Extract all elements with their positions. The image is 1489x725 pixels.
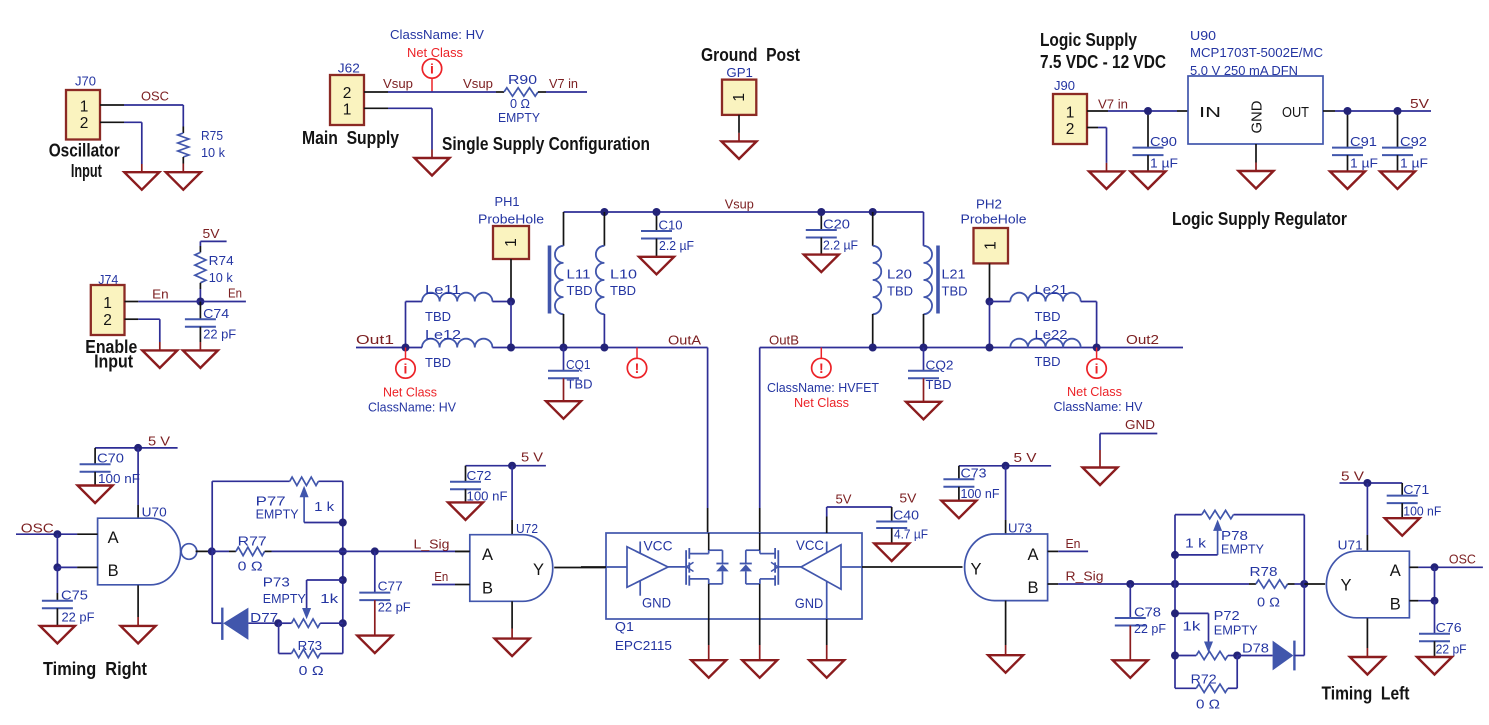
- ground at C71: [1385, 518, 1420, 536]
- core bar right: [936, 246, 940, 314]
- svg-text:22 pF: 22 pF: [203, 327, 236, 342]
- ground at Q1 left FET source: [708, 619, 710, 645]
- capacitor C73: [958, 466, 960, 480]
- wire OutB rail: [760, 347, 1097, 349]
- svg-text:OSC: OSC: [141, 89, 169, 104]
- svg-text:B: B: [482, 579, 493, 597]
- svg-text:En: En: [434, 569, 448, 584]
- svg-text:J90: J90: [1054, 78, 1075, 93]
- junction C78: [1126, 580, 1134, 588]
- Q1 left FET gate arrow: [687, 562, 694, 567]
- wire En stub at U73: [1058, 550, 1088, 552]
- svg-text:5 V: 5 V: [148, 434, 170, 449]
- svg-text:0 Ω: 0 Ω: [1257, 595, 1280, 610]
- svg-text:Input: Input: [71, 161, 102, 181]
- svg-text:Le12: Le12: [425, 327, 461, 342]
- ground at C76: [1417, 657, 1452, 675]
- capacitor CQ2: [923, 348, 925, 371]
- wire V7 in: [546, 91, 587, 93]
- svg-text:ProbeHole: ProbeHole: [478, 212, 544, 227]
- wire feedback left vertical: [211, 481, 213, 623]
- svg-text:TBD: TBD: [1035, 354, 1061, 369]
- svg-text:5V: 5V: [1410, 96, 1429, 111]
- wire J74.2 to ground: [138, 318, 160, 320]
- svg-text:R73: R73: [298, 638, 323, 653]
- svg-text:2: 2: [1066, 121, 1075, 138]
- ground at C73: [941, 501, 976, 519]
- wire 5V from U90 OUT: [1323, 110, 1335, 112]
- svg-text:C73: C73: [961, 466, 987, 481]
- junction Out2-Le21: [1093, 344, 1101, 352]
- ground at C91: [1330, 171, 1365, 189]
- wire to C75: [56, 567, 58, 593]
- svg-text:L10: L10: [610, 267, 637, 282]
- svg-text:1: 1: [1066, 105, 1075, 122]
- junction at C90: [1144, 107, 1152, 115]
- svg-text:0 Ω: 0 Ω: [510, 96, 530, 111]
- svg-text:A: A: [1028, 546, 1039, 564]
- potentiometer P73 element: [278, 622, 291, 624]
- svg-text:0 Ω: 0 Ω: [238, 559, 263, 574]
- junction Le12-PH1 branch: [507, 344, 515, 352]
- junction 5V-U70: [134, 444, 142, 452]
- junction P72-D78: [1233, 652, 1241, 660]
- wire J90.2 to ground: [1098, 127, 1107, 129]
- node En junction: [196, 298, 204, 306]
- Q1 right GND pin: [826, 581, 828, 619]
- capacitor C90: [1147, 115, 1149, 148]
- ground at C78: [1129, 626, 1131, 661]
- potentiometer P77: [290, 477, 319, 485]
- svg-text:C75: C75: [61, 588, 88, 603]
- Q1 input wire: [606, 566, 627, 568]
- Q1 right buffer: [801, 545, 841, 589]
- svg-text:R74: R74: [209, 253, 234, 268]
- potentiometer P73 wiper: [307, 579, 343, 581]
- svg-text:Q1: Q1: [615, 619, 634, 634]
- svg-text:En: En: [1066, 536, 1081, 551]
- svg-text:L_Sig: L_Sig: [414, 537, 450, 552]
- ground at J90.2: [1089, 171, 1124, 189]
- Q1 right FET drain lead: [760, 553, 775, 555]
- potentiometer P72 wiper: [1175, 612, 1209, 614]
- wire Vsup rail: [564, 211, 924, 213]
- svg-text:2: 2: [343, 85, 352, 102]
- svg-text:!: !: [635, 360, 640, 376]
- wire OutB down to Q1: [759, 348, 761, 509]
- capacitor C76: [1434, 601, 1436, 634]
- svg-text:Logic Supply: Logic Supply: [1040, 30, 1137, 50]
- resistor R75: [182, 127, 184, 134]
- diode D78: [1237, 655, 1272, 657]
- U70 VCC wire: [137, 448, 139, 505]
- U90 GND to ground: [1255, 144, 1257, 163]
- svg-text:TBD: TBD: [942, 284, 968, 299]
- wire Le21 right down to Out2: [1096, 302, 1098, 348]
- svg-text:V7 in: V7 in: [1098, 97, 1128, 112]
- diode D77: [212, 622, 222, 624]
- svg-text:En: En: [152, 287, 169, 302]
- svg-text:1 µF: 1 µF: [1400, 156, 1428, 171]
- svg-text:P73: P73: [263, 575, 290, 590]
- ground at C40: [874, 544, 909, 562]
- svg-text:TBD: TBD: [567, 377, 593, 392]
- svg-text:OUT: OUT: [1282, 104, 1309, 121]
- svg-text:1: 1: [503, 238, 520, 247]
- svg-text:Y: Y: [971, 561, 982, 579]
- svg-text:OutB: OutB: [769, 333, 799, 348]
- capacitor C77: [374, 551, 376, 592]
- Q1 right VCC pin: [826, 542, 828, 553]
- svg-text:CQ1: CQ1: [566, 357, 591, 372]
- svg-text:i: i: [404, 360, 408, 376]
- Q1 left FET source lead: [689, 578, 708, 580]
- junction L20 top: [869, 208, 877, 216]
- svg-text:U70: U70: [142, 505, 167, 520]
- U71 VCC wire: [1366, 483, 1368, 535]
- svg-text:J70: J70: [75, 74, 96, 89]
- svg-text:22 pF: 22 pF: [378, 600, 411, 615]
- ground at CQ1: [563, 378, 565, 401]
- capacitor C75: [42, 601, 73, 609]
- svg-text:B: B: [1390, 596, 1401, 614]
- svg-text:5V: 5V: [836, 492, 852, 507]
- PH2 pin: [989, 263, 991, 301]
- svg-text:Out2: Out2: [1126, 332, 1159, 347]
- wire L_Sig: [343, 550, 455, 552]
- capacitor C40: [891, 507, 893, 522]
- junction OutB-Le22: [986, 344, 994, 352]
- U72 VCC wire: [511, 466, 513, 520]
- wire OSC to U70: [16, 533, 77, 535]
- junction left bus R_Sig: [1171, 580, 1179, 588]
- wire feedback right bus: [342, 481, 344, 653]
- resistor R78: [1256, 580, 1288, 588]
- svg-text:ClassName: HV: ClassName: HV: [1054, 399, 1143, 414]
- svg-text:Le21: Le21: [1035, 282, 1068, 297]
- svg-text:4.7 µF: 4.7 µF: [894, 527, 928, 542]
- Q1 left source to box bottom: [708, 584, 710, 619]
- svg-text:R_Sig: R_Sig: [1066, 569, 1104, 584]
- resistor R73: [278, 623, 280, 653]
- svg-text:EPC2115: EPC2115: [615, 638, 672, 653]
- svg-text:5V: 5V: [203, 226, 220, 241]
- svg-text:100 nF: 100 nF: [961, 486, 1000, 501]
- svg-text:GND: GND: [795, 595, 824, 611]
- U73 GND pin to ground: [1005, 601, 1007, 645]
- Q1 right FET gate arrow: [771, 562, 778, 567]
- Q1 right body diode: [745, 550, 747, 563]
- svg-text:22 pF: 22 pF: [62, 610, 95, 625]
- wire P77 top rail: [212, 480, 290, 482]
- junction L21-CQ2: [920, 344, 928, 352]
- svg-text:J62: J62: [338, 60, 360, 75]
- wire P78 top rail: [1175, 514, 1202, 516]
- capacitor C72: [465, 466, 467, 482]
- transistor block Q1: [606, 533, 862, 619]
- svg-text:C72: C72: [467, 468, 492, 483]
- svg-text:GND: GND: [1249, 100, 1266, 133]
- svg-text:R77: R77: [238, 534, 267, 549]
- svg-text:L11: L11: [567, 267, 591, 282]
- svg-text:Timing Right: Timing Right: [43, 659, 147, 679]
- svg-text:Logic Supply Regulator: Logic Supply Regulator: [1172, 209, 1347, 229]
- junction C10 top: [653, 208, 661, 216]
- wire Out2: [1097, 347, 1183, 349]
- svg-text:Oscillator: Oscillator: [49, 141, 120, 161]
- svg-text:1k: 1k: [320, 591, 339, 606]
- svg-text:C40: C40: [893, 508, 919, 523]
- svg-text:EMPTY: EMPTY: [1214, 623, 1258, 638]
- svg-text:22 pF: 22 pF: [1134, 621, 1166, 636]
- junction D77-P73: [274, 619, 282, 627]
- svg-text:1 µF: 1 µF: [1350, 156, 1378, 171]
- wire Le11 left to Out1: [405, 302, 407, 348]
- Q1 left VCC pin: [639, 542, 641, 554]
- ground at J62.1: [415, 158, 450, 176]
- svg-text:Out1: Out1: [356, 332, 394, 347]
- svg-text:1: 1: [80, 99, 89, 116]
- inductor L21: [923, 212, 925, 246]
- svg-text:5 V: 5 V: [1014, 450, 1037, 465]
- svg-text:Ground Post: Ground Post: [701, 45, 800, 65]
- wire R_Sig: [1058, 583, 1249, 585]
- svg-text:C74: C74: [203, 306, 229, 321]
- svg-text:TBD: TBD: [567, 283, 593, 298]
- Q1 right FET gate: [778, 566, 801, 568]
- svg-text:OSC: OSC: [21, 521, 54, 536]
- Q1 right drain to box top: [759, 533, 761, 550]
- inductor Le22: [1010, 339, 1080, 348]
- svg-text:5 V: 5 V: [1341, 469, 1364, 484]
- svg-text:C77: C77: [378, 579, 403, 594]
- resistor R77: [212, 550, 229, 552]
- svg-text:ClassName: HVFET: ClassName: HVFET: [767, 380, 879, 395]
- junction Out1-Le11: [402, 344, 410, 352]
- capacitor C71: [1401, 483, 1403, 496]
- svg-text:!: !: [819, 360, 824, 376]
- svg-text:GND: GND: [642, 595, 671, 611]
- inductor L10: [603, 212, 605, 246]
- svg-text:EMPTY: EMPTY: [263, 591, 306, 606]
- svg-text:IN: IN: [1199, 104, 1221, 121]
- wire U70 output node: [196, 550, 212, 552]
- svg-text:i: i: [1095, 360, 1099, 376]
- svg-text:U71: U71: [1338, 538, 1363, 553]
- svg-text:2: 2: [103, 312, 112, 329]
- svg-text:OutA: OutA: [668, 333, 701, 348]
- svg-text:C70: C70: [97, 451, 124, 466]
- svg-text:C90: C90: [1150, 134, 1177, 149]
- svg-text:0 Ω: 0 Ω: [299, 663, 324, 678]
- svg-text:1: 1: [103, 295, 112, 312]
- U73 VCC wire: [1005, 466, 1007, 520]
- Q1 right source to box bottom: [759, 584, 761, 619]
- ground at R75: [182, 164, 184, 173]
- svg-text:OSC: OSC: [1449, 552, 1476, 567]
- svg-text:CQ2: CQ2: [926, 358, 954, 373]
- svg-text:MCP1703T-5002E/MC: MCP1703T-5002E/MC: [1190, 45, 1323, 60]
- svg-text:10 k: 10 k: [209, 270, 233, 285]
- wire U71 A-B tie: [1434, 567, 1436, 600]
- ground at CQ2: [923, 378, 925, 402]
- net class directive at Out2: [1096, 348, 1098, 359]
- Q1 left buffer: [627, 547, 668, 587]
- svg-text:R90: R90: [508, 72, 537, 87]
- svg-text:B: B: [108, 562, 119, 580]
- ground at C75: [40, 626, 75, 644]
- Q1 right FET source lead: [760, 578, 775, 580]
- svg-text:C20: C20: [823, 217, 850, 232]
- ground at C20: [804, 255, 839, 273]
- ground at C90: [1131, 171, 1166, 189]
- svg-text:1: 1: [343, 102, 352, 119]
- inductor L11: [563, 212, 565, 246]
- ground at C74: [199, 342, 201, 350]
- svg-text:5V: 5V: [899, 491, 916, 506]
- svg-text:C10: C10: [659, 218, 683, 233]
- svg-text:Y: Y: [1341, 577, 1352, 595]
- inductor Le21: [990, 301, 1011, 303]
- svg-text:B: B: [1028, 579, 1039, 597]
- directive at OutB: [820, 348, 822, 359]
- wire right bus: [1303, 515, 1305, 656]
- svg-text:A: A: [108, 529, 119, 547]
- junction L10 bottom: [600, 344, 608, 352]
- ground at C10: [639, 257, 674, 275]
- resistor R90: [496, 91, 504, 93]
- ground at J74.2: [142, 350, 177, 368]
- wire P77 wiper: [304, 522, 343, 524]
- junction L11 bottom: [560, 344, 568, 352]
- junction PH1-Le11: [507, 298, 515, 306]
- wire left bus: [1174, 515, 1176, 689]
- svg-text:A: A: [482, 546, 493, 564]
- ground at C92: [1380, 171, 1415, 189]
- svg-text:1: 1: [731, 93, 748, 102]
- svg-text:Input: Input: [94, 352, 133, 372]
- svg-text:C78: C78: [1134, 605, 1161, 620]
- wire En stub: [432, 584, 455, 586]
- U70 GND pin to ground: [137, 585, 139, 617]
- svg-text:VCC: VCC: [796, 537, 824, 553]
- wire J70.2 to ground: [124, 121, 142, 123]
- Q1 left FET gate: [668, 566, 686, 568]
- svg-text:2: 2: [80, 115, 89, 132]
- ground at Q1 right FET source: [759, 619, 761, 645]
- svg-text:A: A: [1390, 562, 1401, 580]
- svg-text:2.2 µF: 2.2 µF: [823, 238, 858, 253]
- capacitor C91: [1347, 115, 1349, 148]
- wire Le11 right to OutA rail: [510, 302, 512, 348]
- core bar left: [548, 246, 552, 314]
- svg-text:Net Class: Net Class: [794, 395, 849, 410]
- svg-text:10 k: 10 k: [201, 145, 225, 160]
- svg-text:ClassName: HV: ClassName: HV: [368, 400, 456, 415]
- capacitor C92: [1397, 115, 1399, 148]
- svg-text:C91: C91: [1350, 134, 1377, 149]
- svg-text:1: 1: [983, 241, 1000, 250]
- ground at C77: [374, 600, 376, 636]
- svg-text:U72: U72: [516, 521, 538, 536]
- svg-text:C92: C92: [1400, 134, 1427, 149]
- wire V7 in to U90: [1108, 110, 1177, 112]
- svg-text:TBD: TBD: [1035, 309, 1061, 324]
- Q1 left input pin: [581, 566, 606, 568]
- wire OSC at U71: [1418, 566, 1483, 568]
- svg-text:TBD: TBD: [610, 283, 636, 298]
- wire P78 wiper: [1175, 554, 1218, 556]
- svg-text:EMPTY: EMPTY: [1221, 542, 1264, 557]
- Q1 left FET drain lead: [689, 553, 708, 555]
- svg-text:TBD: TBD: [425, 309, 451, 324]
- svg-text:TBD: TBD: [887, 284, 913, 299]
- svg-text:Vsup: Vsup: [383, 76, 413, 91]
- net class directive at Out1: [405, 348, 407, 359]
- wire En: [138, 301, 246, 303]
- U71 Y pin to bus: [1304, 583, 1325, 585]
- Q1 left GND pin: [639, 581, 641, 596]
- capacitor C70: [94, 448, 96, 464]
- svg-text:0 Ω: 0 Ω: [1196, 697, 1220, 712]
- svg-text:1 k: 1 k: [1185, 536, 1207, 551]
- capacitor C74: [199, 302, 201, 320]
- capacitor C78: [1129, 584, 1131, 618]
- junction PH2-Le21: [986, 298, 994, 306]
- inductor Le12: [422, 339, 492, 348]
- svg-text:Main Supply: Main Supply: [302, 128, 399, 148]
- svg-text:PH1: PH1: [495, 194, 520, 209]
- wire OutA down to Q1: [707, 348, 709, 509]
- svg-text:Y: Y: [533, 561, 544, 579]
- wire Vsup from J62.2: [388, 91, 496, 93]
- Q1 left FET channel: [688, 548, 690, 559]
- svg-text:C71: C71: [1403, 482, 1429, 497]
- U71 GND pin to ground: [1366, 618, 1368, 648]
- Q1 left body diode: [722, 550, 724, 563]
- svg-text:5 V: 5 V: [521, 450, 543, 465]
- svg-text:Vsup: Vsup: [463, 76, 493, 91]
- svg-text:ClassName: HV: ClassName: HV: [390, 27, 484, 42]
- potentiometer P72 element: [1175, 655, 1196, 657]
- ground at GP1: [722, 141, 757, 159]
- svg-text:Net Class: Net Class: [407, 45, 463, 60]
- svg-text:EMPTY: EMPTY: [256, 507, 299, 522]
- U72 GND pin to ground: [511, 601, 513, 628]
- wire OutA rail: [492, 347, 707, 349]
- svg-text:VCC: VCC: [644, 538, 673, 554]
- capacitor CQ1: [563, 348, 565, 371]
- potentiometer P78: [1202, 510, 1234, 518]
- svg-text:2.2 µF: 2.2 µF: [659, 238, 694, 253]
- svg-text:100 nF: 100 nF: [1403, 504, 1441, 519]
- svg-text:En: En: [228, 286, 242, 301]
- svg-text:PH2: PH2: [976, 197, 1002, 212]
- PH1 pin: [510, 259, 512, 302]
- svg-text:EMPTY: EMPTY: [498, 110, 540, 125]
- svg-text:D78: D78: [1242, 641, 1269, 656]
- junction C20 top: [817, 208, 825, 216]
- svg-text:i: i: [430, 60, 434, 76]
- Q1 right output pin to U73: [862, 566, 963, 568]
- svg-text:D77: D77: [250, 610, 278, 625]
- svg-text:GND: GND: [1125, 417, 1155, 432]
- capacitor C10: [656, 216, 658, 231]
- svg-text:1k: 1k: [1182, 619, 1201, 634]
- wire J62.1 to ground: [388, 107, 432, 109]
- wire OSC from J70.1: [124, 104, 183, 106]
- resistor R72: [1175, 687, 1196, 689]
